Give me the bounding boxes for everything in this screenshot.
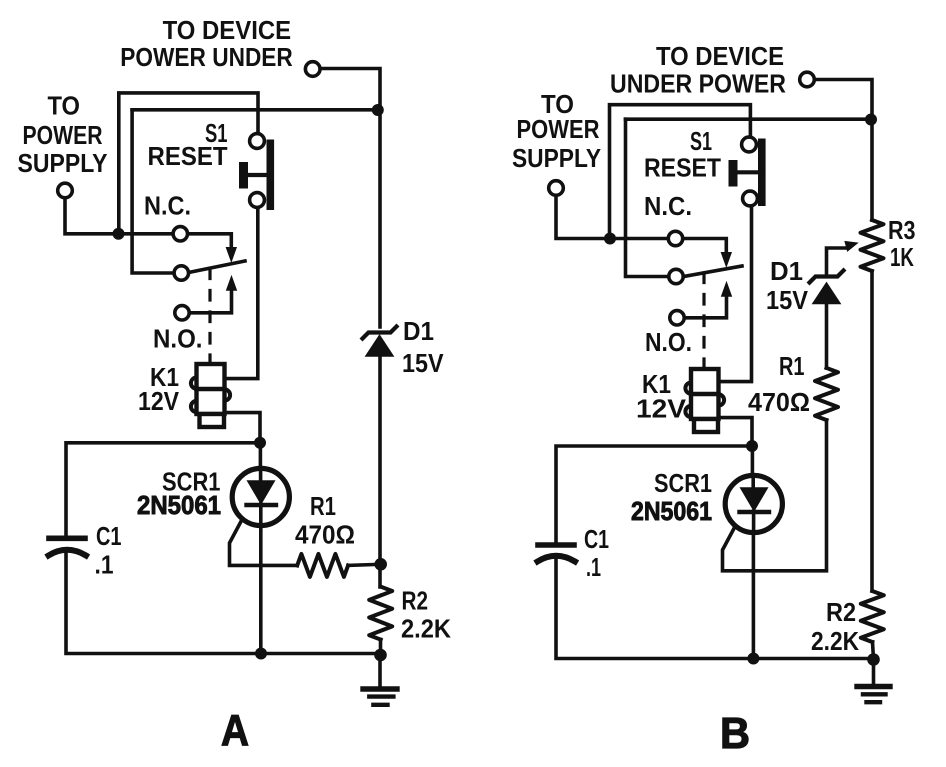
- svg-text:15V: 15V: [402, 348, 444, 378]
- wire: A anode line into SCR: [259, 443, 263, 481]
- wire: A outer box top and drop to S1: [119, 93, 258, 234]
- svg-text:R1: R1: [310, 491, 336, 521]
- wire: A right rail below zener to R2 top: [378, 356, 382, 587]
- svg-text:C1: C1: [96, 521, 122, 551]
- wire: B cathode line from SCR to bottom rail: [752, 512, 756, 659]
- wire: A inner line to right-rail junction: [132, 108, 378, 112]
- svg-text:.1: .1: [95, 550, 114, 580]
- capacitor C1 (A): flat plate and curved plate: [49, 538, 87, 555]
- junction dots B: [604, 114, 880, 666]
- contact: B common circle: [669, 269, 683, 283]
- terminal: B TO DEVICE circle: [800, 72, 815, 87]
- SCR1 (B): circle, triangle, cathode bar: [725, 475, 782, 532]
- svg-text:RESET: RESET: [148, 141, 228, 171]
- wire: A inner left drop to common contact: [132, 110, 174, 273]
- svg-text:R1: R1: [779, 351, 805, 381]
- svg-text:N.C.: N.C.: [144, 191, 191, 221]
- wire: A C1 loop (top, left, bottom): [66, 443, 381, 654]
- svg-text:POWER UNDER: POWER UNDER: [120, 42, 293, 72]
- wire: B relay bottom pin to SCR junction: [719, 418, 753, 446]
- svg-text:R3: R3: [888, 215, 916, 245]
- svg-text:2N5061: 2N5061: [137, 490, 221, 520]
- ground symbol (B): [857, 660, 890, 703]
- svg-text:12V: 12V: [138, 386, 180, 416]
- wire: B S1 bottom to relay top pin: [719, 206, 752, 382]
- wire: B C1 loop (top, left, bottom): [556, 446, 874, 659]
- wire: B inner line to right-rail junction: [626, 117, 873, 121]
- svg-text:N.C.: N.C.: [644, 191, 692, 221]
- wire: B wiper arm of R3 down to zener D1: [827, 248, 848, 277]
- wire: B N.C. contact to down-arrow corner: [683, 239, 727, 252]
- terminal: A TO POWER SUPPLY circle: [58, 183, 73, 198]
- wire: B inner left drop to common contact: [626, 119, 670, 276]
- svg-text:2.2K: 2.2K: [401, 614, 451, 644]
- svg-text:R2: R2: [402, 586, 429, 616]
- wire: B R2 bottom to ground junction: [873, 642, 874, 660]
- svg-text:D1: D1: [770, 256, 803, 286]
- dashed link: A armature to relay coil: [208, 269, 211, 364]
- svg-text:C1: C1: [584, 524, 609, 554]
- svg-text:S1: S1: [690, 126, 712, 156]
- arrow: B up arrow toward blade: [722, 282, 732, 296]
- potentiometer R3 (B): vertical zigzag: [861, 220, 884, 271]
- svg-text:470Ω: 470Ω: [748, 387, 810, 417]
- wire: A R1 right lead to junction on rail: [348, 564, 380, 565]
- svg-text:SCR1: SCR1: [654, 468, 712, 498]
- svg-text:B: B: [720, 709, 750, 758]
- svg-text:TO DEVICE: TO DEVICE: [656, 41, 784, 71]
- svg-text:SUPPLY: SUPPLY: [18, 148, 108, 178]
- contact: A N.O. circle: [175, 306, 189, 320]
- wire: A S1 bottom to relay top pin: [226, 208, 258, 379]
- wire: A relay bottom pin to SCR junction: [226, 413, 260, 443]
- capacitor C1 (B): flat plate and curved plate: [538, 545, 576, 562]
- resistor R1 (A): horizontal zigzag: [297, 554, 348, 577]
- wire: B N.O. contact to up-arrow corner: [684, 297, 727, 318]
- contact: B N.O. circle: [670, 311, 684, 325]
- resistor R2 (A): vertical zigzag: [369, 587, 392, 640]
- contact: A common circle: [174, 266, 188, 280]
- svg-text:.1: .1: [586, 552, 601, 582]
- wire: A supply terminal stub to N.C. contact: [65, 198, 173, 234]
- pushbutton S1 (B): contact circles, bar, plunger: [729, 137, 766, 206]
- wire: B anode line into SCR: [751, 446, 755, 488]
- wire: B D1 to R1 link: [825, 304, 829, 368]
- zener diode D1 (A): bar and triangle: [363, 327, 397, 357]
- svg-text:D1: D1: [403, 316, 434, 346]
- svg-text:470Ω: 470Ω: [295, 520, 355, 550]
- ground symbol (A): [363, 655, 397, 705]
- svg-text:1K: 1K: [890, 242, 914, 272]
- svg-text:RESET: RESET: [644, 153, 721, 183]
- svg-text:2N5061: 2N5061: [631, 496, 712, 526]
- wire: A SCR gate lead to R1: [230, 520, 298, 566]
- wire: B outer box top and drop to S1: [610, 105, 751, 239]
- arrow: B down arrow onto blade: [721, 253, 731, 267]
- wire: A cathode line from SCR to bottom rail: [259, 505, 263, 654]
- switch blade: A relay armature: [189, 261, 246, 273]
- junction dots A: [113, 104, 388, 661]
- wire: B supply terminal stub to N.C. contact: [556, 196, 669, 239]
- zener diode D1 (B): bar and triangle: [810, 271, 844, 304]
- resistor R2 (B): vertical zigzag: [861, 591, 884, 642]
- wire: B SCR gate lead to R1 branch: [723, 420, 827, 571]
- contact: A N.C. circle: [173, 227, 187, 241]
- svg-text:R2: R2: [826, 597, 856, 627]
- svg-text:TO DEVICE: TO DEVICE: [163, 15, 292, 45]
- svg-text:15V: 15V: [766, 285, 809, 315]
- svg-text:SUPPLY: SUPPLY: [512, 143, 601, 173]
- arrow: A up arrow toward blade: [227, 276, 237, 290]
- svg-text:12V: 12V: [636, 394, 687, 424]
- svg-text:TO: TO: [48, 91, 81, 121]
- arrow: B R3 wiper arrowhead: [845, 242, 858, 252]
- switch blade: B relay armature: [684, 266, 743, 277]
- pushbutton S1 (A): contact circles, bar, plunger: [239, 134, 274, 210]
- wire: B top feed from terminal to right rail: [815, 80, 873, 221]
- wire: A top feed from terminal to right rail: [320, 69, 380, 328]
- terminal: A TO DEVICE circle: [305, 62, 320, 77]
- svg-text:2.2K: 2.2K: [811, 626, 859, 656]
- wire: A N.C. contact to down-arrow corner: [188, 234, 232, 246]
- SCR1 (A): circle, triangle, cathode bar: [232, 468, 289, 525]
- svg-text:N.O.: N.O.: [645, 327, 692, 357]
- relay K1 (A): coil box with loops: [191, 364, 230, 427]
- terminal: B TO POWER SUPPLY circle: [549, 181, 564, 196]
- wire: A N.O. contact to up-arrow corner: [189, 291, 232, 313]
- wire: B right rail between R3 and R2: [870, 271, 874, 591]
- svg-text:UNDER POWER: UNDER POWER: [610, 69, 786, 99]
- arrow: A down arrow onto blade: [226, 248, 236, 262]
- resistor R1 (B): vertical zigzag: [815, 368, 838, 420]
- svg-text:A: A: [221, 706, 249, 755]
- dashed link: B armature to relay coil: [702, 273, 705, 369]
- svg-text:POWER: POWER: [23, 120, 103, 150]
- svg-text:POWER: POWER: [517, 114, 600, 144]
- contact: B N.C. circle: [668, 231, 682, 245]
- svg-text:N.O.: N.O.: [153, 324, 203, 354]
- relay K1 (B): coil box with loops: [685, 369, 724, 432]
- wire: A R2 bottom to ground junction: [379, 640, 383, 656]
